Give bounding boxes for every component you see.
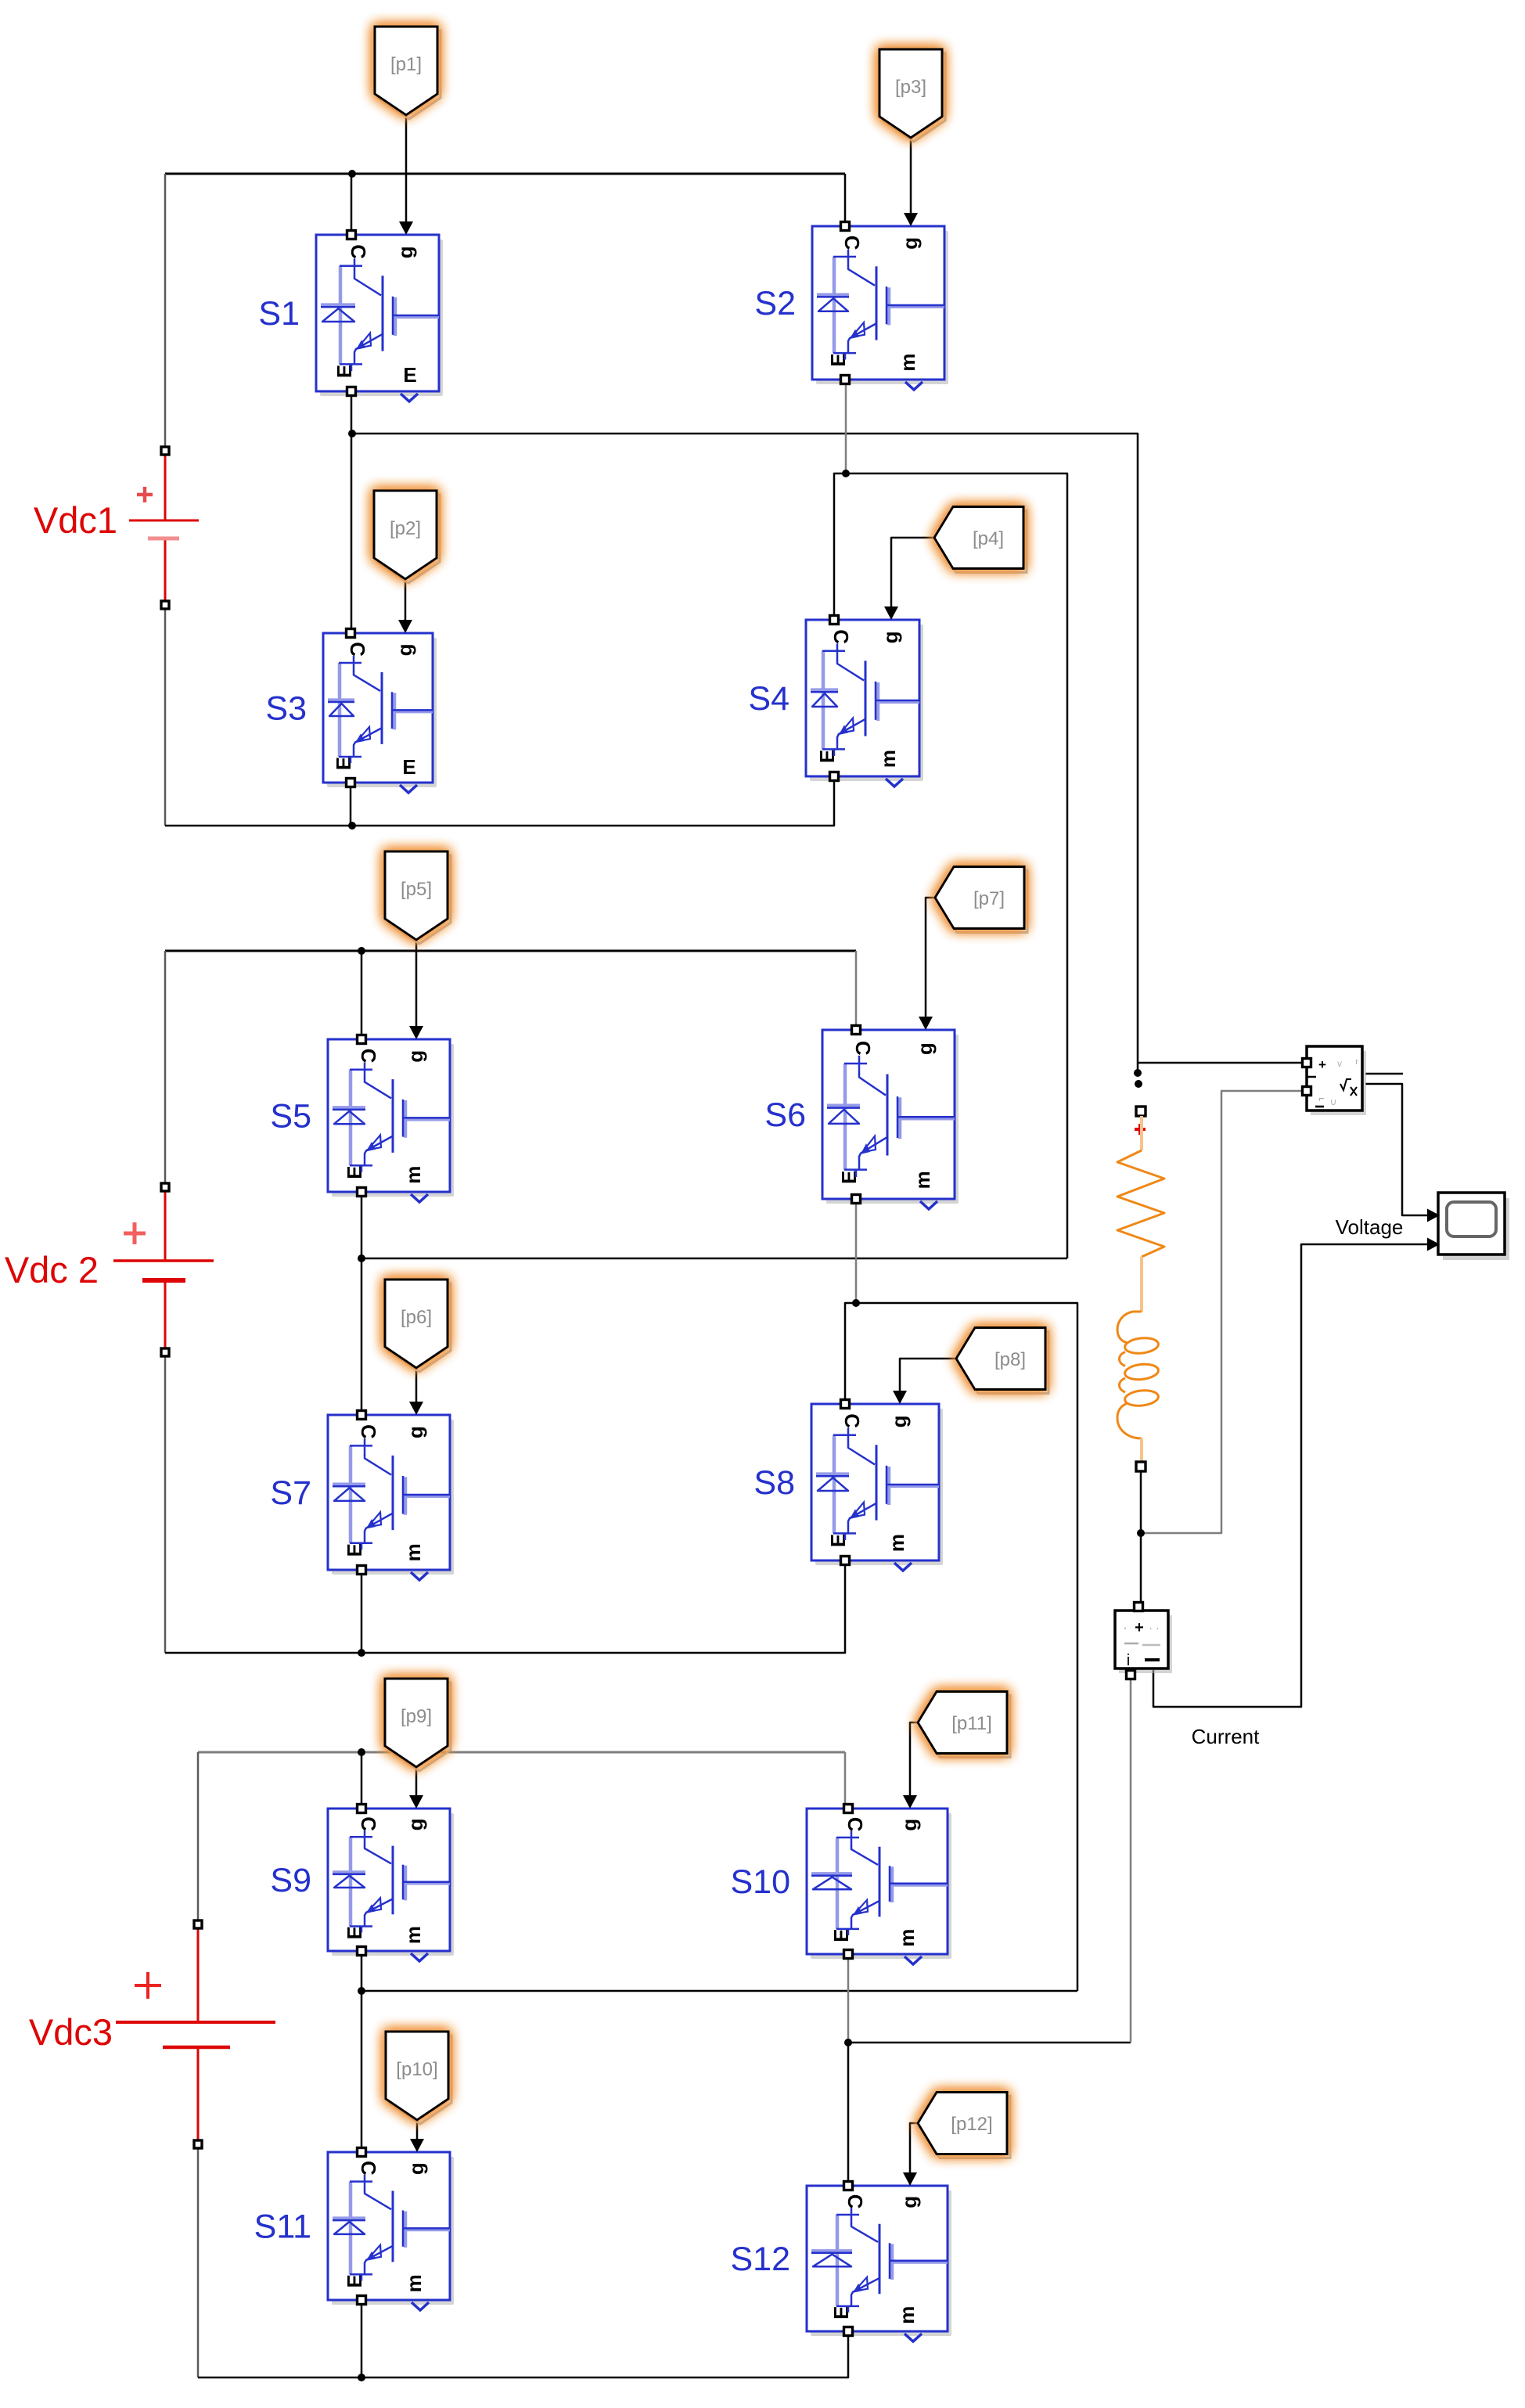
node load top A2 (1135, 1080, 1142, 1088)
wire gate S9 (415, 1767, 418, 1805)
svg-text:g: g (404, 1426, 427, 1438)
wire cell3 top rail (198, 1751, 845, 1754)
svg-text:S12: S12 (730, 2241, 790, 2278)
svg-text:C: C (346, 642, 369, 657)
wire S7 emitter (361, 1566, 363, 1653)
gate arrowhead (399, 221, 413, 235)
svg-text:m: m (402, 2274, 426, 2292)
svg-text:g: g (404, 1818, 427, 1830)
goto tag [p9] (385, 1679, 451, 1771)
svg-text:g: g (393, 643, 416, 656)
goto tag [p7] (935, 867, 1027, 933)
wire gate S1 (405, 115, 408, 222)
svg-text:· ·: · · (1149, 1622, 1159, 1634)
wire S9 collector (361, 1752, 363, 1805)
wire gate S8 (900, 1359, 956, 1391)
svg-text:Vdc 2: Vdc 2 (5, 1249, 99, 1290)
svg-text:S10: S10 (730, 1863, 790, 1901)
node cell2 bottom (358, 1649, 365, 1657)
svg-text:E: E (343, 1165, 366, 1179)
transistor S12 (IGBT/Diode block) (807, 2182, 951, 2342)
svg-text:S7: S7 (270, 1474, 311, 1512)
wire current measurement output to scope (1153, 1244, 1427, 1707)
inductor L (orange coil) (1117, 1312, 1159, 1438)
transistor S6 (IGBT/Diode block) (822, 1026, 959, 1210)
wire load bottom to current measurement (1140, 1471, 1142, 1607)
node cell3 bottom (358, 2374, 365, 2381)
svg-text:C: C (843, 1817, 867, 1832)
wire cell2 right-mid to cell3 left-mid (856, 1303, 1077, 1991)
svg-text:C: C (357, 2161, 380, 2176)
svg-text:Vdc3: Vdc3 (29, 2011, 113, 2053)
svg-text:C: C (357, 1424, 380, 1439)
svg-text:E: E (402, 755, 415, 779)
svg-text:C: C (357, 1816, 380, 1831)
svg-text:g: g (405, 2162, 428, 2175)
wire cell1 right-mid to cell2 left-mid (846, 473, 1067, 1258)
wire load bottom node to voltage measurement - (1141, 1091, 1307, 1533)
wire S5 collector (361, 951, 363, 1035)
transistor S5 (IGBT/Diode block) (328, 1035, 454, 1203)
node cell2 right-mid (852, 1299, 860, 1307)
svg-text:C: C (840, 236, 864, 250)
DC source Vdc2 (113, 1183, 214, 1356)
svg-text:g: g (887, 1415, 911, 1427)
scope block (1438, 1193, 1509, 1260)
svg-text:m: m (895, 2306, 919, 2324)
svg-text:·: · (1123, 1622, 1127, 1635)
node load bottom B (1137, 1529, 1145, 1537)
wire S6 emitter (855, 1195, 858, 1303)
svg-text:i: i (1127, 1652, 1130, 1669)
goto tag [p3] (879, 49, 945, 142)
svg-text:g: g (879, 631, 902, 643)
svg-text:S5: S5 (270, 1098, 311, 1136)
wire cell1 left-mid to load (node A) (352, 434, 1138, 1073)
svg-text:r: r (1355, 1057, 1358, 1067)
svg-text:E: E (343, 1543, 366, 1557)
svg-text:C: C (840, 1413, 864, 1428)
gate arrowhead (410, 2139, 424, 2152)
node cell2 left-mid (358, 1254, 365, 1262)
wire S4 collector (834, 473, 846, 616)
svg-text:E: E (826, 1534, 850, 1547)
svg-text:g: g (404, 1050, 427, 1063)
svg-text:S9: S9 (270, 1862, 311, 1899)
wire gate S2 (910, 138, 912, 214)
svg-text:E: E (815, 750, 839, 763)
wire cell1 bottom rail (165, 780, 834, 826)
node cell2 top (358, 947, 365, 955)
wire S10 emitter (847, 1958, 850, 2043)
gate arrowhead (409, 1402, 423, 1415)
svg-text:E: E (826, 353, 850, 366)
wire cell3 left-mid rail (361, 1990, 1077, 1992)
svg-text:+: + (1135, 1619, 1144, 1636)
node cell3 left-mid (358, 1987, 365, 1995)
svg-text:[p11]: [p11] (951, 1713, 992, 1734)
goto tag [p1] (375, 27, 441, 119)
wire gate S4 (891, 538, 934, 607)
goto tag [p6] (385, 1280, 451, 1372)
svg-text:m: m (885, 1534, 908, 1552)
port load top (1136, 1107, 1146, 1116)
transistor S7 (IGBT/Diode block) (328, 1411, 454, 1581)
svg-text:Vdc1: Vdc1 (34, 499, 117, 541)
svg-text:C: C (851, 1041, 875, 1056)
svg-text:∪: ∪ (1330, 1096, 1337, 1107)
svg-text:E: E (343, 1926, 366, 1939)
wire left bus to Vdc1 (164, 174, 167, 447)
wire S6 collector (855, 951, 858, 1026)
node cell3 right-mid (844, 2039, 852, 2046)
svg-text:+: + (1318, 1057, 1326, 1072)
transistor S10 (IGBT/Diode block) (807, 1805, 951, 1965)
svg-text:Voltage: Voltage (1336, 1215, 1404, 1239)
wire L to bottom port (orange) (1140, 1438, 1143, 1462)
svg-text:[p3]: [p3] (895, 77, 926, 98)
wire left bus to Vdc2 (164, 951, 167, 1183)
svg-text:m: m (401, 1166, 425, 1184)
transistor S11 (IGBT/Diode block) (328, 2148, 454, 2311)
transistor S3 (IGBT/Diode block) (323, 629, 437, 794)
svg-text:[p9]: [p9] (401, 1706, 432, 1727)
gate arrowhead (398, 620, 412, 633)
svg-text:m: m (911, 1171, 934, 1189)
wire cell2 left-mid rail (361, 1258, 1067, 1260)
wire S1 emitter to S3 collector (351, 395, 353, 629)
svg-text:S4: S4 (748, 680, 789, 718)
wire S3 emitter (350, 786, 352, 826)
goto tag [p5] (385, 851, 451, 944)
svg-text:m: m (401, 1926, 425, 1944)
svg-text:C: C (347, 244, 370, 259)
svg-text:E: E (343, 2274, 366, 2287)
goto tag [p2] (374, 491, 440, 583)
wire R to L (orange) (1140, 1257, 1143, 1312)
svg-text:C: C (843, 2194, 867, 2209)
wire S11 emitter (361, 2304, 363, 2377)
scope input arrowheads (1427, 1209, 1440, 1222)
DC source Vdc3 (116, 1920, 275, 2148)
wire S2 collector (844, 174, 847, 222)
svg-text:[p1]: [p1] (390, 54, 422, 75)
svg-text:[p2]: [p2] (390, 518, 421, 539)
svg-text:E: E (403, 363, 416, 387)
DC source Vdc1 (129, 447, 199, 609)
svg-text:[p6]: [p6] (401, 1307, 432, 1328)
svg-text:E: E (837, 1171, 861, 1184)
wire cell1 top rail (165, 173, 845, 175)
resistor R (orange zigzag) (1140, 1116, 1143, 1150)
node load top A (1134, 1069, 1142, 1077)
wire load return to current measurement (848, 2042, 1131, 2044)
wire left bus to Vdc3 (197, 1752, 200, 1920)
svg-text:m: m (896, 353, 919, 371)
gate arrowhead (903, 1795, 917, 1809)
svg-text:S6: S6 (764, 1096, 806, 1134)
gate arrowhead (409, 1026, 423, 1039)
svg-text:g: g (394, 246, 417, 258)
svg-text:E: E (332, 757, 355, 770)
transistor S1 (IGBT/Diode block) (316, 231, 443, 402)
svg-text:Current: Current (1192, 1725, 1260, 1748)
svg-text:m: m (401, 1543, 425, 1561)
gate arrowhead (893, 1391, 907, 1404)
svg-text:S8: S8 (754, 1464, 795, 1502)
wire S8 collector (845, 1303, 856, 1400)
svg-text:g: g (898, 237, 922, 250)
svg-text:v: v (1337, 1058, 1342, 1069)
gate arrowhead (884, 606, 898, 620)
node cell1 right-mid (842, 470, 850, 477)
svg-text:S3: S3 (265, 690, 307, 728)
transistor S2 (IGBT/Diode block) (812, 222, 948, 391)
svg-text:E: E (829, 2306, 853, 2320)
svg-text:⌐: ⌐ (1318, 1092, 1325, 1104)
current measurement block U_I (1115, 1603, 1172, 1679)
svg-text:E: E (829, 1929, 853, 1942)
svg-text:E: E (333, 365, 356, 378)
svg-text:C: C (829, 629, 853, 644)
svg-text:[p12]: [p12] (951, 2114, 992, 2135)
wire gate S5 (415, 939, 418, 1029)
svg-text:g: g (897, 1819, 921, 1831)
wire S12 collector (847, 2043, 850, 2182)
wire S10 collector (844, 1752, 847, 1805)
transistor S9 (IGBT/Diode block) (328, 1805, 454, 1962)
svg-text:[p4]: [p4] (973, 528, 1004, 549)
goto tag [p8] (956, 1328, 1048, 1394)
gate arrowhead (919, 1017, 933, 1030)
svg-text:S2: S2 (754, 285, 796, 322)
voltage measurement block U_V (1303, 1046, 1367, 1115)
transistor S4 (IGBT/Diode block) (806, 616, 923, 787)
wire S5 emitter to S7 collector (361, 1188, 363, 1411)
wire gate S11 (416, 2120, 419, 2148)
wire voltage measurement output to scope (1365, 1073, 1403, 1075)
port load bottom (1136, 1462, 1146, 1471)
node cell3 top (358, 1748, 365, 1756)
svg-text:g: g (913, 1042, 937, 1055)
wire cell3 bottom rail (198, 2335, 848, 2377)
wire gate S3 (405, 579, 407, 621)
wire gate S12 (910, 2123, 918, 2182)
transistor S8 (IGBT/Diode block) (811, 1400, 943, 1571)
svg-text:S11: S11 (254, 2208, 311, 2246)
wire node A to voltage measurement + (1138, 1062, 1307, 1064)
svg-text:g: g (897, 2196, 921, 2208)
goto tag [p11] (918, 1692, 1010, 1758)
gate arrowhead (409, 1795, 423, 1809)
gate arrowhead (903, 2172, 917, 2186)
svg-text:[p5]: [p5] (401, 879, 432, 900)
svg-text:m: m (876, 750, 900, 768)
svg-text:[p8]: [p8] (994, 1349, 1026, 1370)
wire cell2 bottom rail (165, 1564, 845, 1653)
wire gate S7 (415, 1368, 418, 1405)
svg-text:[p10]: [p10] (396, 2059, 437, 2080)
svg-text:m: m (895, 1929, 919, 1947)
goto tag [p12] (918, 2093, 1010, 2158)
node cell1 left-mid (348, 430, 356, 437)
wire gate S6 (926, 898, 935, 1017)
wire gate S10 (910, 1722, 918, 1805)
svg-text:[p7]: [p7] (973, 888, 1005, 909)
gate arrowhead (904, 213, 918, 226)
wire S1 collector (351, 174, 353, 231)
goto tag [p10] (386, 2032, 451, 2124)
wire S2 emitter (845, 383, 847, 473)
node top-rail/S1C (348, 170, 356, 178)
node load + marker (1135, 1128, 1146, 1131)
wire cell2 top rail (165, 950, 856, 952)
node cell1 bottom (348, 822, 356, 830)
goto tag [p4] (934, 507, 1027, 573)
svg-text:S1: S1 (258, 295, 300, 333)
wire S9 emitter to S11 collector (361, 1955, 363, 2148)
svg-text:C: C (357, 1049, 380, 1064)
